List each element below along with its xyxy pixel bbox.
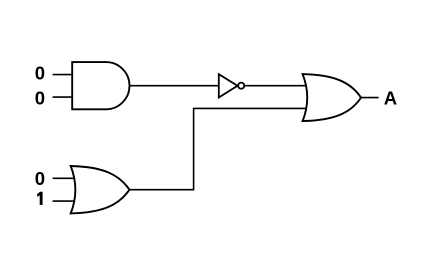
svg-text:0: 0 — [35, 88, 45, 109]
svg-text:A: A — [384, 88, 397, 109]
svg-text:0: 0 — [35, 168, 45, 189]
svg-text:0: 0 — [35, 63, 45, 84]
